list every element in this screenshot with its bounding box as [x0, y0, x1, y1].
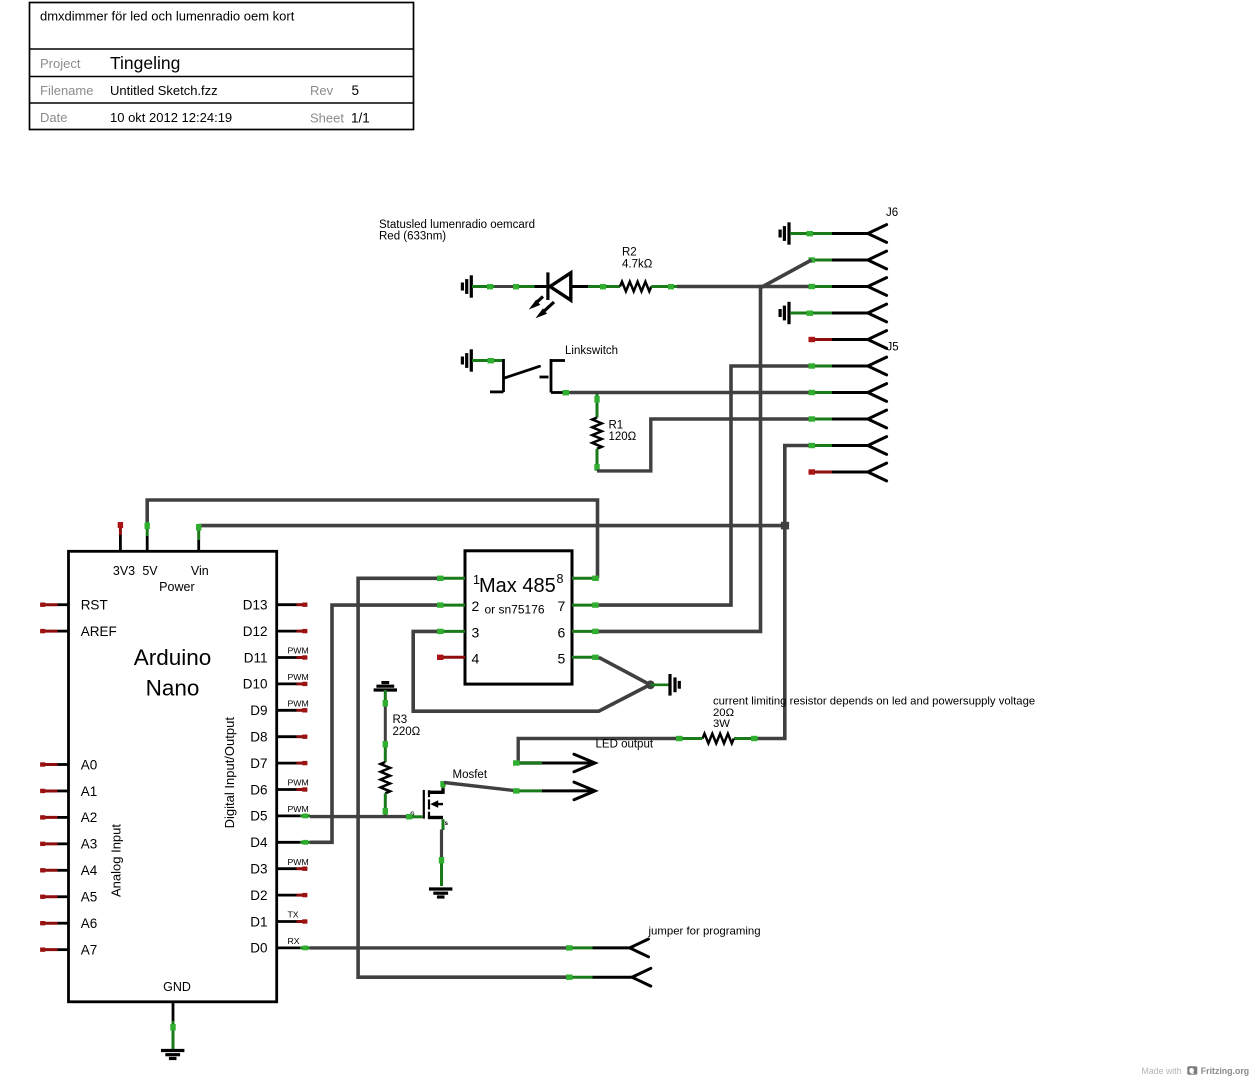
wire diagonal node J6-3 to J6 pin2	[761, 260, 812, 288]
svg-text:Fritzing.org: Fritzing.org	[1201, 1066, 1249, 1076]
svg-text:D7: D7	[250, 756, 267, 771]
svg-text:Power: Power	[159, 580, 194, 594]
wire 5V to Max485 pin8 (VCC)	[147, 500, 597, 578]
U2 pin A7 (unconnected)	[40, 947, 68, 951]
svg-text:A1: A1	[81, 784, 98, 799]
resistor R2	[620, 282, 651, 292]
svg-text:Digital Input/Output: Digital Input/Output	[222, 717, 237, 829]
wire switch S1 to J5 pin2	[563, 390, 809, 395]
U2 pin GND leg	[170, 1002, 175, 1050]
svg-text:3W: 3W	[713, 718, 730, 730]
wire GND6 to R3	[383, 690, 388, 762]
transistor Q1 (Mosfet)	[410, 787, 448, 827]
label Arduino Nano	[134, 645, 212, 701]
svg-text:Rev: Rev	[310, 83, 334, 98]
svg-text:Linkswitch: Linkswitch	[565, 345, 618, 357]
svg-text:6: 6	[558, 624, 566, 640]
svg-text:J5: J5	[887, 342, 899, 354]
U2 pin 3V3 (unconnected)	[118, 522, 123, 551]
svg-text:5V: 5V	[142, 564, 158, 578]
svg-text:R3: R3	[393, 714, 408, 726]
svg-text:A6: A6	[81, 916, 98, 931]
svg-text:120Ω: 120Ω	[609, 431, 637, 443]
U2 pin D0	[277, 946, 310, 951]
U2 pin D6	[277, 787, 308, 791]
svg-text:Mosfet: Mosfet	[453, 769, 488, 781]
svg-text:Tingeling: Tingeling	[110, 53, 180, 73]
resistor R1	[592, 418, 602, 449]
U2 pin A6 (unconnected)	[40, 921, 68, 925]
U2 pin A4 (unconnected)	[40, 868, 68, 872]
svg-text:A4: A4	[81, 863, 98, 878]
U2 pin Vin leg	[196, 524, 201, 551]
IC U1 Max 485 box	[465, 551, 572, 684]
svg-text:10 okt 2012 12:24:19: 10 okt 2012 12:24:19	[110, 110, 232, 125]
svg-text:D10: D10	[243, 677, 268, 692]
wire ground to J6 pin4	[790, 311, 832, 316]
header pin J6 pin2	[809, 251, 887, 269]
svg-text:2: 2	[472, 598, 480, 614]
LED LED1	[529, 272, 588, 318]
jumper pin1 arrow	[630, 939, 649, 957]
jumper pin2 arrow	[632, 968, 651, 986]
svg-text:Arduino: Arduino	[134, 645, 212, 670]
wire D4 to U1 pin2	[310, 605, 437, 842]
U2 pin D4	[277, 840, 310, 845]
ground GND4 (Linkswitch)	[462, 349, 471, 371]
U2 pin D3	[277, 867, 308, 871]
svg-text:D2: D2	[250, 888, 267, 903]
svg-text:3: 3	[472, 624, 480, 640]
header pin J6 pin3	[809, 278, 887, 296]
title block frame	[30, 3, 414, 130]
label Statusled lumenradio oemcard Red (633nm)	[379, 219, 535, 243]
svg-text:5: 5	[558, 650, 566, 666]
wire LED1 to R2	[588, 284, 620, 289]
svg-text:Red (633nm): Red (633nm)	[379, 231, 446, 243]
svg-text:A0: A0	[81, 757, 98, 772]
svg-text:D6: D6	[250, 782, 267, 797]
svg-text:3V3: 3V3	[113, 564, 135, 578]
U2 pin D10	[277, 682, 308, 686]
wire Vin to node V+	[199, 524, 785, 528]
ground GND5 (Max485)	[670, 674, 679, 696]
header pin J5 pin2	[809, 384, 887, 402]
Q1 drain leg	[440, 781, 445, 789]
svg-text:PWM: PWM	[288, 804, 309, 814]
wire R1 to J5 pin3	[594, 419, 808, 471]
U2 pin D9	[277, 708, 308, 712]
resistor R3	[381, 762, 391, 793]
svg-text:7: 7	[558, 598, 566, 614]
wire U1 pin1 (RO) to jumper pin2	[358, 578, 632, 980]
header pin J5 pin4	[809, 437, 887, 455]
label R2 4.7kΩ	[622, 247, 653, 271]
svg-text:D13: D13	[243, 598, 268, 613]
U2 pin AREF (unconnected)	[40, 629, 68, 633]
svg-text:D12: D12	[243, 624, 268, 639]
header pin J5 pin5	[809, 463, 887, 481]
wire ground to LED1	[472, 284, 535, 289]
wire J5 pin4 / node V+ / 20Ω resistor	[758, 446, 809, 739]
svg-text:A7: A7	[81, 942, 98, 957]
wire D0/RX to jumper pin1	[310, 945, 630, 950]
U1 pin 5 leg	[572, 655, 599, 660]
U2 pin A5 (unconnected)	[40, 895, 68, 899]
svg-text:RST: RST	[81, 598, 108, 613]
switch S1 (Linkswitch)	[490, 359, 565, 393]
U1 pin 8 leg	[572, 576, 599, 581]
svg-text:Statusled lumenradio oemcard: Statusled lumenradio oemcard	[379, 219, 535, 231]
svg-text:Sheet: Sheet	[310, 111, 344, 126]
ground GND1 (status LED)	[462, 275, 471, 297]
IC U2 Arduino Nano box	[69, 551, 277, 1002]
svg-text:4.7kΩ: 4.7kΩ	[622, 259, 653, 271]
junction ground node	[646, 680, 655, 689]
U2 pin D2	[277, 893, 308, 897]
svg-text:Nano: Nano	[146, 676, 200, 701]
U2 pin A1 (unconnected)	[40, 789, 68, 793]
wire U1 pin5 to ground node	[599, 657, 651, 685]
junction node V+	[781, 522, 789, 530]
svg-text:A2: A2	[81, 810, 98, 825]
svg-text:1/1: 1/1	[351, 111, 370, 126]
svg-text:PWM: PWM	[288, 699, 309, 709]
U1 pin 2 leg	[437, 602, 465, 607]
wire ground to J6 pin1	[790, 231, 832, 236]
header pin J5 pin1	[809, 357, 887, 375]
svg-text:D0: D0	[250, 941, 267, 956]
svg-text:PWM: PWM	[288, 778, 309, 788]
header pin J5 pin3	[809, 410, 887, 428]
svg-text:TX: TX	[288, 910, 299, 920]
svg-text:D8: D8	[250, 730, 267, 745]
svg-text:220Ω: 220Ω	[393, 726, 421, 738]
ground GND6 (R3 top, inverted)	[374, 683, 397, 690]
ground GND2 (J6 pin1)	[780, 222, 789, 244]
svg-text:8: 8	[557, 572, 564, 586]
wire Q1 drain to LED output pin2	[444, 783, 595, 794]
svg-text:D5: D5	[250, 809, 267, 824]
LED output pin2 arrow	[574, 782, 595, 800]
svg-text:Date: Date	[40, 110, 67, 125]
wire R4 to LED output pin1	[513, 736, 703, 766]
U2 pin D5	[277, 814, 310, 819]
svg-text:5: 5	[352, 83, 360, 98]
U2 pin D7	[277, 761, 308, 765]
U2 pin D13	[277, 603, 308, 607]
header pin J6 pin4	[832, 304, 887, 322]
svg-text:D4: D4	[250, 835, 268, 850]
svg-text:J6: J6	[886, 207, 898, 219]
Q1 source leg	[442, 819, 445, 830]
wire U1 pin7 to J5 pin1	[599, 366, 809, 605]
label R1 120Ω	[609, 420, 637, 444]
wire node switch to R1	[594, 394, 599, 418]
svg-text:Analog Input: Analog Input	[109, 824, 124, 897]
watermark Made with Fritzing.org	[1142, 1066, 1250, 1076]
ground GND8 (Arduino)	[161, 1051, 184, 1059]
svg-text:RX: RX	[288, 936, 300, 946]
wire D5 to Q1 gate	[310, 814, 423, 819]
svg-text:A3: A3	[81, 837, 98, 852]
wire R2 to node J6-3	[651, 284, 762, 289]
svg-text:4: 4	[472, 650, 480, 666]
U2 pin D1	[277, 919, 308, 923]
svg-text:A5: A5	[81, 890, 98, 905]
wire R3 to D5 net	[383, 793, 388, 816]
U1 pin 6 leg	[572, 629, 599, 634]
U2 pin 5V leg	[145, 522, 150, 551]
svg-text:Made with: Made with	[1142, 1066, 1182, 1076]
ground GND7 (Mosfet source)	[429, 889, 452, 897]
svg-text:jumper for programing: jumper for programing	[648, 926, 761, 938]
U2 pin A0 (unconnected)	[40, 762, 68, 766]
svg-text:Untitled Sketch.fzz: Untitled Sketch.fzz	[110, 83, 218, 98]
svg-text:Max 485: Max 485	[479, 575, 556, 597]
svg-text:R1: R1	[609, 420, 624, 432]
U2 pin D11	[277, 655, 308, 659]
wire Q1 source to GND7	[439, 830, 444, 887]
resistor R4 20Ω	[734, 736, 758, 741]
svg-text:D11: D11	[244, 650, 268, 665]
svg-text:GND: GND	[163, 980, 191, 994]
svg-text:R2: R2	[622, 247, 637, 259]
svg-text:Project: Project	[40, 56, 81, 71]
svg-text:D9: D9	[250, 703, 267, 718]
wire ground to switch S1	[472, 358, 504, 363]
label R3 220Ω	[393, 714, 421, 738]
header pin J6 pin1	[832, 225, 887, 243]
wire ground node to GND5	[650, 683, 668, 686]
U2 pin D12	[277, 629, 308, 633]
svg-text:LED output: LED output	[596, 739, 654, 751]
svg-text:dmxdimmer för led och lumenrad: dmxdimmer för led och lumenradio oem kor…	[40, 9, 295, 24]
header pin J6 pin5	[809, 331, 887, 349]
U2 pin RST (unconnected)	[40, 603, 68, 607]
wire U1 pin6 to node J6-3	[599, 287, 809, 632]
svg-text:AREF: AREF	[81, 624, 117, 639]
U2 pin D8	[277, 735, 308, 739]
label Max 485	[473, 572, 564, 597]
U2 pin A2 (unconnected)	[40, 815, 68, 819]
svg-text:PWM: PWM	[288, 672, 309, 682]
wire U1 pin3 loop to ground node	[413, 631, 650, 711]
U1 pin 7 leg	[572, 602, 599, 607]
LED output pin1 arrow	[574, 754, 595, 772]
svg-text:D1: D1	[250, 914, 267, 929]
ground GND3 (J6 pin4)	[780, 302, 789, 324]
U1 pin 1 leg	[437, 576, 465, 581]
svg-text:D3: D3	[250, 862, 267, 877]
svg-text:or sn75176: or sn75176	[485, 603, 545, 617]
U1 pin 3 leg	[437, 629, 465, 634]
svg-text:PWM: PWM	[288, 646, 309, 656]
U1 pin 4 leg (unconnected)	[437, 655, 465, 660]
svg-text:Filename: Filename	[40, 83, 93, 98]
svg-text:PWM: PWM	[288, 857, 309, 867]
svg-text:Vin: Vin	[191, 564, 209, 578]
svg-text:current limiting resistor depe: current limiting resistor depends on led…	[713, 696, 1035, 708]
U2 pin A3 (unconnected)	[40, 842, 68, 846]
